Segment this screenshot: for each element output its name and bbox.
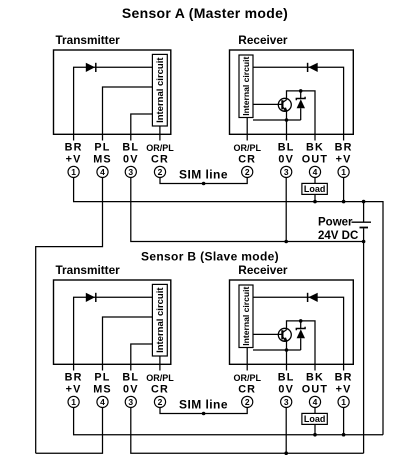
svg-text:24V DC: 24V DC	[318, 230, 358, 242]
svg-text:Power: Power	[318, 217, 353, 229]
svg-text:Sensor A (Master mode): Sensor A (Master mode)	[122, 5, 288, 21]
svg-text:Sensor B (Slave mode): Sensor B (Slave mode)	[141, 250, 279, 264]
